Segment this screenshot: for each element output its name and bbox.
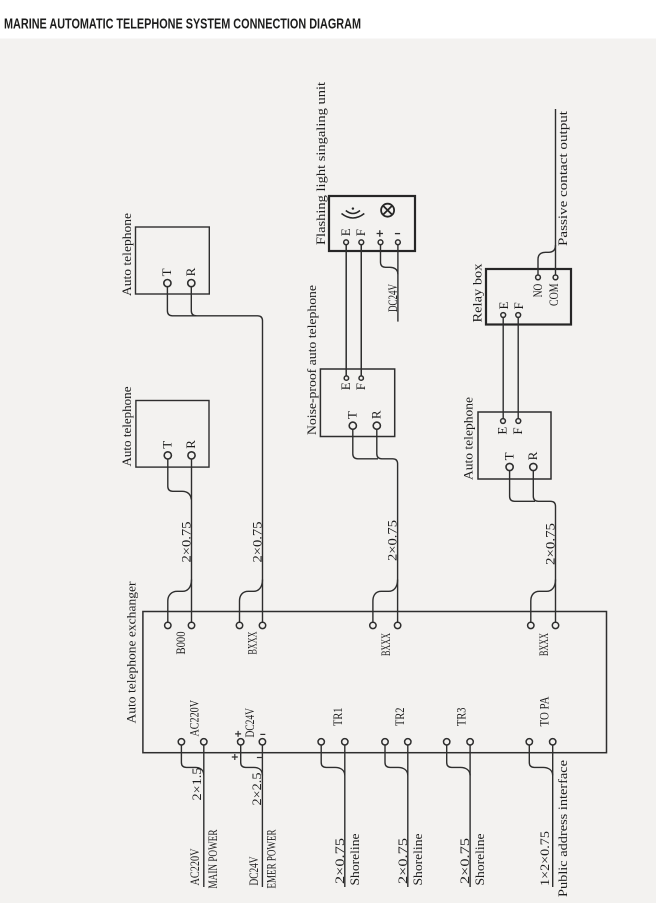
terminal U2.R xyxy=(183,440,198,459)
buzzer symbol inside U3 xyxy=(342,207,365,218)
terminal U4.T xyxy=(345,411,360,429)
svg-text:DC24V: DC24V xyxy=(385,284,400,312)
svg-text:2×0.75: 2×0.75 xyxy=(179,522,194,563)
terminal U6.F xyxy=(510,419,525,435)
svg-text:Shoreline: Shoreline xyxy=(410,833,425,885)
svg-text:BXXX: BXXX xyxy=(245,631,260,654)
box U7: auto telephone exchanger xyxy=(143,612,607,753)
svg-text:Auto telephone: Auto telephone xyxy=(119,386,134,466)
box U2: auto telephone (lower left) xyxy=(136,401,209,468)
terminal pair Q2 (DC24V) xyxy=(238,739,266,745)
box U4: noise-proof auto telephone xyxy=(320,369,394,437)
wire WL: TR2 shoreline cable xyxy=(385,745,408,887)
terminal pair Q3 (TR1) xyxy=(318,739,348,745)
svg-text:NO: NO xyxy=(530,284,545,298)
box U3: flashing light singaling unit xyxy=(329,196,415,251)
terminal U6.R xyxy=(525,451,540,470)
terminal pair P2 (BXXX) xyxy=(236,622,265,628)
svg-text:BXXX: BXXX xyxy=(536,633,551,656)
terminal U3.+ xyxy=(377,230,383,244)
svg-text:TO PA: TO PA xyxy=(536,696,551,727)
svg-text:MARINE AUTOMATIC TELEPHONE SYS: MARINE AUTOMATIC TELEPHONE SYSTEM CONNEC… xyxy=(4,16,361,33)
wire WE1: U3.E to U4.E xyxy=(345,245,347,376)
wire WK: TR1 shoreline cable xyxy=(321,745,345,887)
svg-text:Public address interface: Public address interface xyxy=(555,760,570,897)
polarity + on WJ xyxy=(232,754,238,760)
svg-text:F: F xyxy=(353,383,368,390)
terminal U5.E xyxy=(496,302,511,318)
svg-text:2×0.75: 2×0.75 xyxy=(250,522,265,563)
terminal U3.F xyxy=(353,229,368,245)
wire WH: passive contact output from U5 NO/COM xyxy=(538,109,556,275)
terminal U5.F xyxy=(511,302,526,317)
wire WC: U4 T/R cable down to pair P3 xyxy=(353,429,398,622)
wire WM: TR3 shoreline cable xyxy=(447,745,470,887)
terminal U3.E xyxy=(338,228,353,245)
wire WI: AC220V main power cable xyxy=(181,745,203,887)
svg-text:B000: B000 xyxy=(173,632,188,655)
terminal U3.- xyxy=(395,234,400,245)
polarity - at Q2 xyxy=(260,733,265,735)
svg-text:E: E xyxy=(495,427,510,435)
svg-text:T: T xyxy=(160,441,175,449)
lamp symbol inside U3 xyxy=(381,204,394,217)
box U5: relay box xyxy=(486,269,571,325)
terminal U1.R xyxy=(183,267,198,286)
svg-text:MAIN POWER: MAIN POWER xyxy=(205,829,220,888)
svg-text:R: R xyxy=(183,267,198,276)
terminal U4.R xyxy=(369,410,384,429)
svg-text:E: E xyxy=(338,382,353,390)
wire WG2: U5.F to U6.F xyxy=(517,317,519,418)
svg-text:Passive contact output: Passive contact output xyxy=(555,111,570,246)
terminal pair P1 (B000) xyxy=(165,622,195,628)
terminal pair P3 (BXXX) xyxy=(370,622,401,628)
terminal pair Q4 (TR2) xyxy=(382,739,411,745)
svg-text:EMER POWER: EMER POWER xyxy=(264,829,279,888)
wire WB: U2 T/R cable down to pair P1 xyxy=(168,459,192,622)
svg-text:AC220V: AC220V xyxy=(187,700,202,737)
svg-text:Shoreline: Shoreline xyxy=(347,833,362,885)
box U6: auto telephone (right) xyxy=(478,412,551,479)
svg-text:2×0.75: 2×0.75 xyxy=(457,838,472,884)
svg-text:R: R xyxy=(183,440,198,449)
svg-text:Shoreline: Shoreline xyxy=(472,833,487,885)
svg-text:Relay box: Relay box xyxy=(470,263,485,323)
terminal pair Q1 (AC220V) xyxy=(178,739,207,745)
wire WG1: U5.E to U6.E xyxy=(502,317,504,418)
polarity + at Q2 xyxy=(235,731,241,737)
svg-text:TR3: TR3 xyxy=(453,708,468,727)
svg-text:BXXX: BXXX xyxy=(378,633,393,656)
svg-text:Flashing light singaling unit: Flashing light singaling unit xyxy=(313,82,328,245)
svg-text:F: F xyxy=(353,229,368,236)
svg-text:R: R xyxy=(369,410,384,419)
terminal pair P4 (BXXX) xyxy=(528,622,559,628)
terminal U4.F xyxy=(353,376,368,390)
svg-text:E: E xyxy=(338,228,353,236)
svg-text:Auto telephone: Auto telephone xyxy=(461,397,476,480)
svg-text:Noise-proof auto telephone: Noise-proof auto telephone xyxy=(304,285,319,435)
svg-text:Auto telephone: Auto telephone xyxy=(119,213,134,296)
wire WD: U6 T/R cable down to pair P4 xyxy=(510,471,556,623)
polarity - on WJ xyxy=(257,757,262,759)
svg-text:2×0.75: 2×0.75 xyxy=(332,838,347,884)
svg-text:2×0.75: 2×0.75 xyxy=(395,838,410,884)
terminal U1.T xyxy=(159,268,174,286)
svg-text:DC24V: DC24V xyxy=(246,856,261,885)
svg-text:TR1: TR1 xyxy=(330,708,345,727)
terminal U5.NO xyxy=(530,275,545,297)
svg-text:COM: COM xyxy=(546,283,561,306)
svg-text:AC220V: AC220V xyxy=(187,848,202,885)
svg-text:TR2: TR2 xyxy=(392,708,407,727)
svg-text:2×0.75: 2×0.75 xyxy=(385,520,400,561)
svg-text:F: F xyxy=(510,427,525,434)
svg-text:2×1.5: 2×1.5 xyxy=(189,768,204,801)
svg-text:2×0.75: 2×0.75 xyxy=(543,523,558,565)
terminal U5.COM xyxy=(546,275,561,306)
terminal pair Q6 (TO PA) xyxy=(526,739,556,745)
svg-text:Auto telephone exchanger: Auto telephone exchanger xyxy=(124,581,139,724)
svg-text:1×2×0.75: 1×2×0.75 xyxy=(537,831,552,886)
svg-text:E: E xyxy=(496,302,511,310)
terminal U6.E xyxy=(495,419,510,435)
wire WJ: DC24V emergency power cable xyxy=(241,745,263,887)
wire WF: DC24V feed of U3 xyxy=(381,245,398,322)
svg-text:DC24V: DC24V xyxy=(242,708,257,738)
terminal U4.E xyxy=(338,376,353,390)
wire WN: TO PA public address cable xyxy=(529,745,552,887)
svg-text:T: T xyxy=(159,268,174,276)
terminal pair Q5 (TR3) xyxy=(444,739,474,745)
svg-text:T: T xyxy=(501,452,516,460)
svg-text:R: R xyxy=(525,451,540,460)
wire WE2: U3.F to U4.F xyxy=(360,245,362,376)
terminal U2.T xyxy=(160,441,175,459)
wire WA: U1 T/R cable down to pair P2 xyxy=(167,287,262,623)
svg-text:2×2.5: 2×2.5 xyxy=(249,773,264,806)
terminal U6.T xyxy=(501,452,516,470)
svg-text:F: F xyxy=(511,302,526,309)
svg-text:T: T xyxy=(345,411,360,419)
box U1: auto telephone (upper left) xyxy=(136,227,210,294)
